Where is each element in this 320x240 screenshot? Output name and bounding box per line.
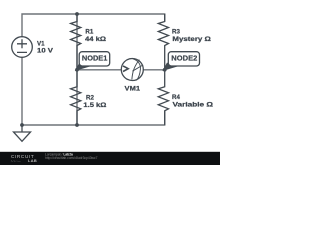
ground [14, 125, 31, 141]
svg-text:R2: R2 [86, 94, 94, 101]
wire ground net: V1 bottom down, across bottom, up to R4 [22, 57, 165, 125]
junction dot R2 bottom (77,124.8) [75, 123, 79, 127]
watermark bar [0, 152, 220, 165]
junction dot node2 (164.7,69.8) [163, 68, 167, 72]
svg-text:R1: R1 [85, 28, 93, 35]
svg-text:Variable Ω: Variable Ω [173, 102, 214, 109]
resistor R1 [71, 14, 81, 70]
node NODE2 flag [163, 52, 199, 70]
node NODE1 flag [76, 52, 110, 70]
svg-text:∿∿┄⎼: ∿∿┄⎼ [11, 159, 22, 163]
svg-text:R3: R3 [172, 28, 180, 35]
resistor R2 [71, 70, 81, 125]
svg-text:V1: V1 [37, 40, 45, 47]
svg-text:10 V: 10 V [37, 48, 54, 55]
svg-text:NODE2: NODE2 [171, 53, 197, 62]
wire VM1 right terminal to NODE2 [143, 69, 164, 71]
svg-text:VM1: VM1 [125, 86, 141, 93]
junction dot ground tap (22,124.8) [20, 123, 24, 127]
voltage source V1 [12, 37, 33, 58]
svg-text:LAB: LAB [28, 158, 37, 163]
svg-text:http://circuitlab.com/c8udr3cp: http://circuitlab.com/c8udr3cp43wc7 [45, 156, 98, 160]
svg-text:NODE1: NODE1 [82, 53, 108, 62]
voltmeter VM1 [121, 59, 143, 81]
wire NODE1 to VM1 left terminal [77, 69, 121, 71]
svg-text:44 kΩ: 44 kΩ [85, 36, 106, 43]
junction dot top (77,14) [75, 12, 79, 16]
junction dot node1 (77,69.8) [75, 68, 79, 72]
resistor R3 [158, 14, 168, 70]
svg-text:R4: R4 [172, 94, 180, 101]
wire vertical through R1/R2 column [76, 14, 78, 125]
wire top net: V1 top lead across to R3 [22, 14, 165, 37]
svg-text:Mystery Ω: Mystery Ω [172, 36, 211, 43]
resistor R4 [158, 70, 168, 125]
svg-text:1.5 kΩ: 1.5 kΩ [83, 102, 106, 109]
